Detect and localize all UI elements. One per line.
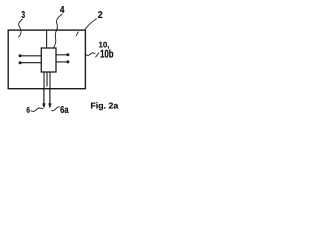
bottom pin right: [49, 72, 51, 89]
right pin dot upper: [66, 53, 69, 56]
left pin wire lower: [20, 62, 41, 64]
label 6a: [60, 106, 68, 113]
leader from 6a: [51, 107, 60, 111]
label 6: [27, 107, 30, 113]
leader from 2 to top-right corner: [85, 19, 97, 30]
right pin wire upper: [56, 54, 68, 56]
label 10,: [99, 42, 109, 49]
arrowhead wire 6: [42, 103, 45, 108]
left pin dot upper: [19, 54, 22, 57]
label 3: [22, 11, 25, 18]
leader tilde to 10b: [85, 53, 95, 56]
component box U1: [41, 48, 56, 72]
wire from top edge to box top: [46, 30, 48, 48]
label 2: [98, 11, 102, 18]
leader from 4: [54, 14, 63, 48]
housing rectangle 2: [8, 30, 85, 89]
leader from 6: [31, 108, 43, 111]
wire 6a below housing: [49, 89, 51, 105]
right pin wire lower: [56, 61, 68, 63]
leader from 3: [18, 19, 22, 37]
caption Fig. 2a: [91, 102, 118, 110]
arrowhead wire 6a: [48, 103, 51, 108]
label 10b: [101, 49, 114, 57]
right pin dot lower: [66, 60, 69, 63]
bottom pin left: [43, 72, 45, 89]
left pin dot lower: [19, 61, 22, 64]
left pin wire upper: [20, 55, 41, 57]
bottom pin middle: [46, 72, 48, 87]
label 4: [60, 6, 64, 13]
leader tail to 10b: [95, 53, 99, 58]
wire 6 below housing: [43, 89, 45, 105]
leader tail inside corner: [76, 32, 78, 36]
